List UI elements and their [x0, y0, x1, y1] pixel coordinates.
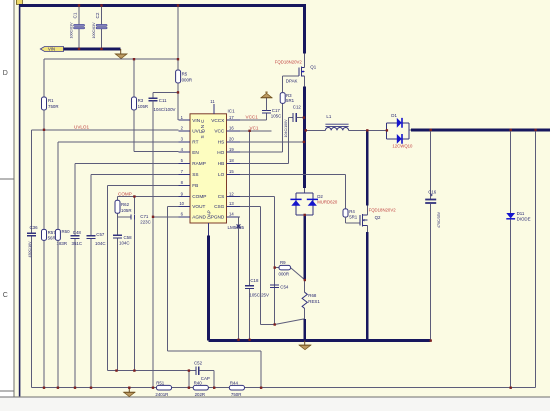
svg-text:R4: R4: [349, 209, 355, 214]
svg-text:100C/63V: 100C/63V: [70, 22, 74, 39]
wire vin-divider horizontal y59: [44, 58, 178, 60]
wire CS/CSG join: [261, 324, 275, 326]
svg-text:104C/100V: 104C/100V: [284, 119, 288, 138]
wire HS to switch node: [240, 141, 303, 143]
capacitor C71: [118, 214, 151, 225]
bus VIN+ top: [19, 4, 304, 7]
svg-text:2401R: 2401R: [155, 392, 168, 397]
svg-text:CSG: CSG: [214, 204, 225, 209]
bus Q2 drain from output node: [366, 130, 369, 205]
svg-text:RES1: RES1: [308, 299, 320, 304]
wire AGND: [153, 216, 179, 218]
wire VCC decoupling vertical to C18: [249, 131, 251, 340]
wire C52 left branch down: [188, 371, 190, 388]
bus VIN port: [64, 48, 121, 51]
ground G3 (PGND bus): [299, 341, 311, 350]
svg-text:000R: 000R: [279, 271, 290, 276]
wire LO: [240, 174, 346, 209]
svg-text:15: 15: [229, 169, 234, 174]
svg-text:R62: R62: [121, 202, 130, 207]
svg-text:C11: C11: [159, 98, 167, 103]
capacitor C12: [284, 105, 303, 138]
svg-text:RT: RT: [192, 140, 198, 145]
wire EN: [134, 151, 179, 153]
svg-text:UVLO1: UVLO1: [74, 125, 90, 130]
svg-text:CS: CS: [218, 194, 225, 199]
wire UVLO vertical: [30, 130, 32, 388]
svg-text:PGND: PGND: [211, 215, 225, 220]
wire VCC: [240, 130, 272, 132]
svg-text:C1: C1: [73, 12, 78, 18]
resistor R9: [275, 260, 305, 280]
svg-text:SS: SS: [192, 172, 198, 177]
capacitor C18: [245, 278, 269, 297]
svg-text:Q1: Q1: [310, 64, 316, 69]
svg-text:11: 11: [210, 99, 215, 104]
resistor R62: [115, 197, 132, 371]
svg-text:RAMP: RAMP: [192, 161, 206, 166]
svg-text:R3: R3: [286, 93, 292, 98]
wire PGND pin down: [239, 217, 241, 340]
bus top right corner down to Q1 drain: [303, 4, 306, 54]
svg-text:MURD620: MURD620: [317, 200, 338, 205]
capacitor C16: [425, 130, 441, 341]
svg-text:AGND: AGND: [192, 215, 206, 220]
svg-text:202R: 202R: [195, 392, 206, 397]
capacitor C17: [262, 98, 281, 118]
svg-text:HO: HO: [217, 150, 224, 155]
svg-text:5R1: 5R1: [286, 98, 295, 103]
wire CSG: [240, 206, 261, 324]
svg-text:VIN: VIN: [192, 118, 200, 123]
sheet left margin: [0, 0, 13, 411]
wire VOUT: [167, 206, 178, 351]
svg-text:VCC: VCC: [214, 129, 225, 134]
IC right pin stubs: [227, 120, 241, 217]
bus output rail: [411, 128, 550, 131]
svg-text:VOUT: VOUT: [192, 204, 205, 209]
svg-text:SYNC: SYNC: [200, 117, 205, 138]
svg-text:D2: D2: [317, 194, 323, 199]
svg-text:105C: 105C: [271, 114, 282, 119]
svg-text:R1: R1: [48, 98, 54, 103]
svg-text:450C/16V: 450C/16V: [28, 241, 32, 258]
svg-text:105R: 105R: [138, 104, 149, 109]
svg-text:351C: 351C: [72, 241, 83, 246]
svg-text:C71: C71: [140, 214, 149, 219]
svg-text:20: 20: [229, 137, 234, 142]
svg-text:17: 17: [229, 115, 234, 120]
svg-text:R5: R5: [182, 72, 188, 77]
svg-text:18: 18: [229, 158, 234, 163]
wire VOUT lower loop: [167, 351, 261, 388]
IC pin names: [192, 118, 225, 220]
svg-text:FQD18N20V2: FQD18N20V2: [369, 207, 397, 212]
resistor R5: [176, 70, 193, 83]
resistor R57: [42, 229, 57, 240]
svg-text:HS: HS: [218, 140, 225, 145]
svg-text:750R: 750R: [231, 392, 242, 397]
resistor R44: [229, 381, 244, 397]
svg-text:C54: C54: [280, 285, 289, 290]
transistor Q1: [299, 54, 305, 87]
svg-text:C: C: [3, 292, 8, 299]
bus PGND horizontal: [208, 339, 430, 342]
svg-text:VCC1: VCC1: [246, 115, 259, 120]
svg-text:FB: FB: [192, 183, 198, 188]
ground G4 (chain): [124, 388, 135, 397]
resistor R4: [343, 209, 360, 223]
svg-text:104C: 104C: [119, 241, 130, 246]
resistor R1: [42, 59, 59, 388]
svg-text:VC1: VC1: [250, 125, 259, 130]
svg-text:CAP: CAP: [201, 376, 210, 381]
resistor R3 5R1 (gate Q1): [280, 76, 299, 103]
wire COMP: [118, 196, 179, 198]
IC left pin numbers: [179, 115, 184, 217]
svg-text:19: 19: [229, 147, 234, 152]
svg-text:R60: R60: [62, 229, 71, 234]
svg-text:FQD18N20V2: FQD18N20V2: [275, 60, 303, 65]
bus Q2 source to ground bus: [366, 232, 369, 341]
marker X on PGND wire: [237, 224, 241, 228]
svg-text:16: 16: [229, 126, 234, 131]
svg-text:C52: C52: [194, 361, 203, 366]
svg-text:D: D: [3, 70, 8, 77]
svg-text:VIN: VIN: [48, 47, 55, 52]
svg-text:104C/100V: 104C/100V: [154, 107, 176, 112]
wire L1 to D1: [349, 129, 387, 131]
svg-text:R44: R44: [230, 381, 239, 386]
svg-text:L1: L1: [326, 114, 331, 119]
resistor R3 105R: [132, 59, 149, 151]
svg-text:COMP: COMP: [118, 191, 132, 196]
svg-text:R57: R57: [48, 230, 57, 235]
svg-text:C18: C18: [250, 278, 259, 283]
svg-text:D11: D11: [517, 211, 525, 216]
svg-text:000R: 000R: [182, 77, 193, 82]
wire switch node to L1: [305, 129, 326, 131]
svg-text:10: 10: [179, 201, 184, 206]
svg-text:C48: C48: [73, 230, 82, 235]
wire HO: [240, 103, 283, 152]
wire R5/VIN pin vertical: [177, 6, 179, 121]
border line left: [13, 0, 15, 397]
ground G2 (above C17, inverted): [261, 93, 272, 98]
svg-text:DAP: DAP: [207, 210, 212, 219]
svg-text:13: 13: [229, 201, 234, 206]
diode D2 dual MURD620: [290, 193, 337, 215]
svg-text:56R: 56R: [48, 236, 56, 241]
wire UVLO1: [31, 129, 178, 131]
bus switch node (Q1 source down): [303, 87, 306, 188]
wire R68 bottom diagonal: [275, 319, 305, 325]
capacitor C2: [92, 6, 107, 49]
svg-text:750R: 750R: [48, 104, 59, 109]
svg-text:DIODE: DIODE: [517, 217, 531, 222]
svg-text:LM5035: LM5035: [228, 225, 245, 230]
svg-text:12CWQ10: 12CWQ10: [392, 143, 413, 148]
port stub top-left (cut off): [16, 0, 22, 4]
svg-text:100C/63V: 100C/63V: [92, 22, 96, 39]
resistor R51: [155, 381, 171, 397]
wire RAMP: [75, 163, 179, 387]
svg-text:IC1: IC1: [228, 109, 236, 114]
svg-text:470C/35V: 470C/35V: [437, 211, 441, 228]
bus PGND vertical from IC: [207, 235, 210, 340]
bus switch node lower (D2 to R68): [303, 215, 306, 280]
wire COMP-C71 vertical to bottom: [133, 197, 135, 371]
svg-text:COMP: COMP: [192, 194, 206, 199]
svg-text:C58: C58: [124, 235, 133, 240]
capacitor C54: [270, 285, 289, 290]
bus R68 to ground bus: [303, 319, 306, 341]
svg-text:C16: C16: [428, 189, 437, 194]
wire CS: [240, 197, 275, 325]
IC U1 LM5035 body: [190, 114, 227, 223]
svg-text:C57: C57: [96, 232, 105, 237]
wire RT: [58, 142, 179, 230]
svg-text:14: 14: [229, 212, 234, 217]
sheet bottom margin: [0, 397, 550, 411]
svg-text:C36: C36: [30, 225, 39, 230]
svg-text:DPAK: DPAK: [286, 78, 298, 83]
capacitor C52: [194, 361, 214, 388]
svg-text:12: 12: [229, 191, 234, 196]
svg-text:C12: C12: [293, 105, 302, 110]
resistor R60: [55, 229, 70, 388]
capacitor C36: [27, 225, 38, 257]
svg-text:EN: EN: [192, 150, 199, 155]
border zone tick lower: [0, 390, 14, 392]
IC right pin numbers: [229, 115, 234, 217]
svg-text:HB: HB: [218, 161, 225, 166]
inductor L1: [325, 114, 348, 130]
IC bottom DAP stub: [207, 223, 209, 235]
svg-text:C2: C2: [95, 12, 100, 18]
transistor Q2: [360, 205, 367, 232]
bus D2 top feed: [304, 188, 306, 193]
capacitor C11: [149, 92, 179, 387]
resistor R68 RES1 zigzag: [302, 280, 320, 319]
svg-text:LO: LO: [218, 172, 225, 177]
diode D11: [506, 130, 530, 388]
resistor R40: [193, 381, 208, 397]
svg-text:105C/25V: 105C/25V: [249, 292, 269, 297]
ground G1 (VIN bus): [115, 49, 127, 59]
wire FB lower horizontal y370.6: [108, 370, 196, 372]
svg-text:R51: R51: [156, 381, 165, 386]
svg-text:C17: C17: [272, 108, 281, 113]
wire FB: [108, 185, 179, 370]
capacitor C57: [87, 232, 106, 246]
capacitor C48: [71, 230, 83, 246]
svg-text:104C: 104C: [95, 241, 106, 246]
IC left pin stubs: [179, 120, 191, 217]
diode D1 dual 12CWQ10: [387, 113, 413, 149]
wire input return (left vertical): [19, 6, 21, 397]
svg-text:VCCX: VCCX: [211, 118, 225, 123]
border zone tick upper: [0, 178, 14, 180]
svg-text:R40: R40: [194, 381, 203, 386]
capacitor C58: [113, 235, 132, 246]
svg-text:R68: R68: [308, 293, 317, 298]
IC top pin 11 stub: [213, 104, 215, 114]
svg-text:5R1: 5R1: [349, 215, 358, 220]
wire output return right edge: [535, 130, 537, 388]
svg-text:Q2: Q2: [375, 215, 381, 220]
capacitor C1: [70, 6, 85, 49]
port VIN: [40, 47, 63, 52]
svg-text:R3: R3: [138, 98, 144, 103]
wire VCCX to C17: [240, 113, 266, 120]
border line bottom: [0, 396, 550, 398]
svg-text:R9: R9: [280, 260, 286, 265]
svg-text:223C: 223C: [140, 220, 151, 225]
wire HB to C12: [240, 118, 293, 164]
wire bottom chain: [31, 387, 535, 389]
svg-text:105R: 105R: [121, 208, 132, 213]
wire SS: [91, 174, 179, 387]
svg-text:D1: D1: [391, 113, 397, 118]
